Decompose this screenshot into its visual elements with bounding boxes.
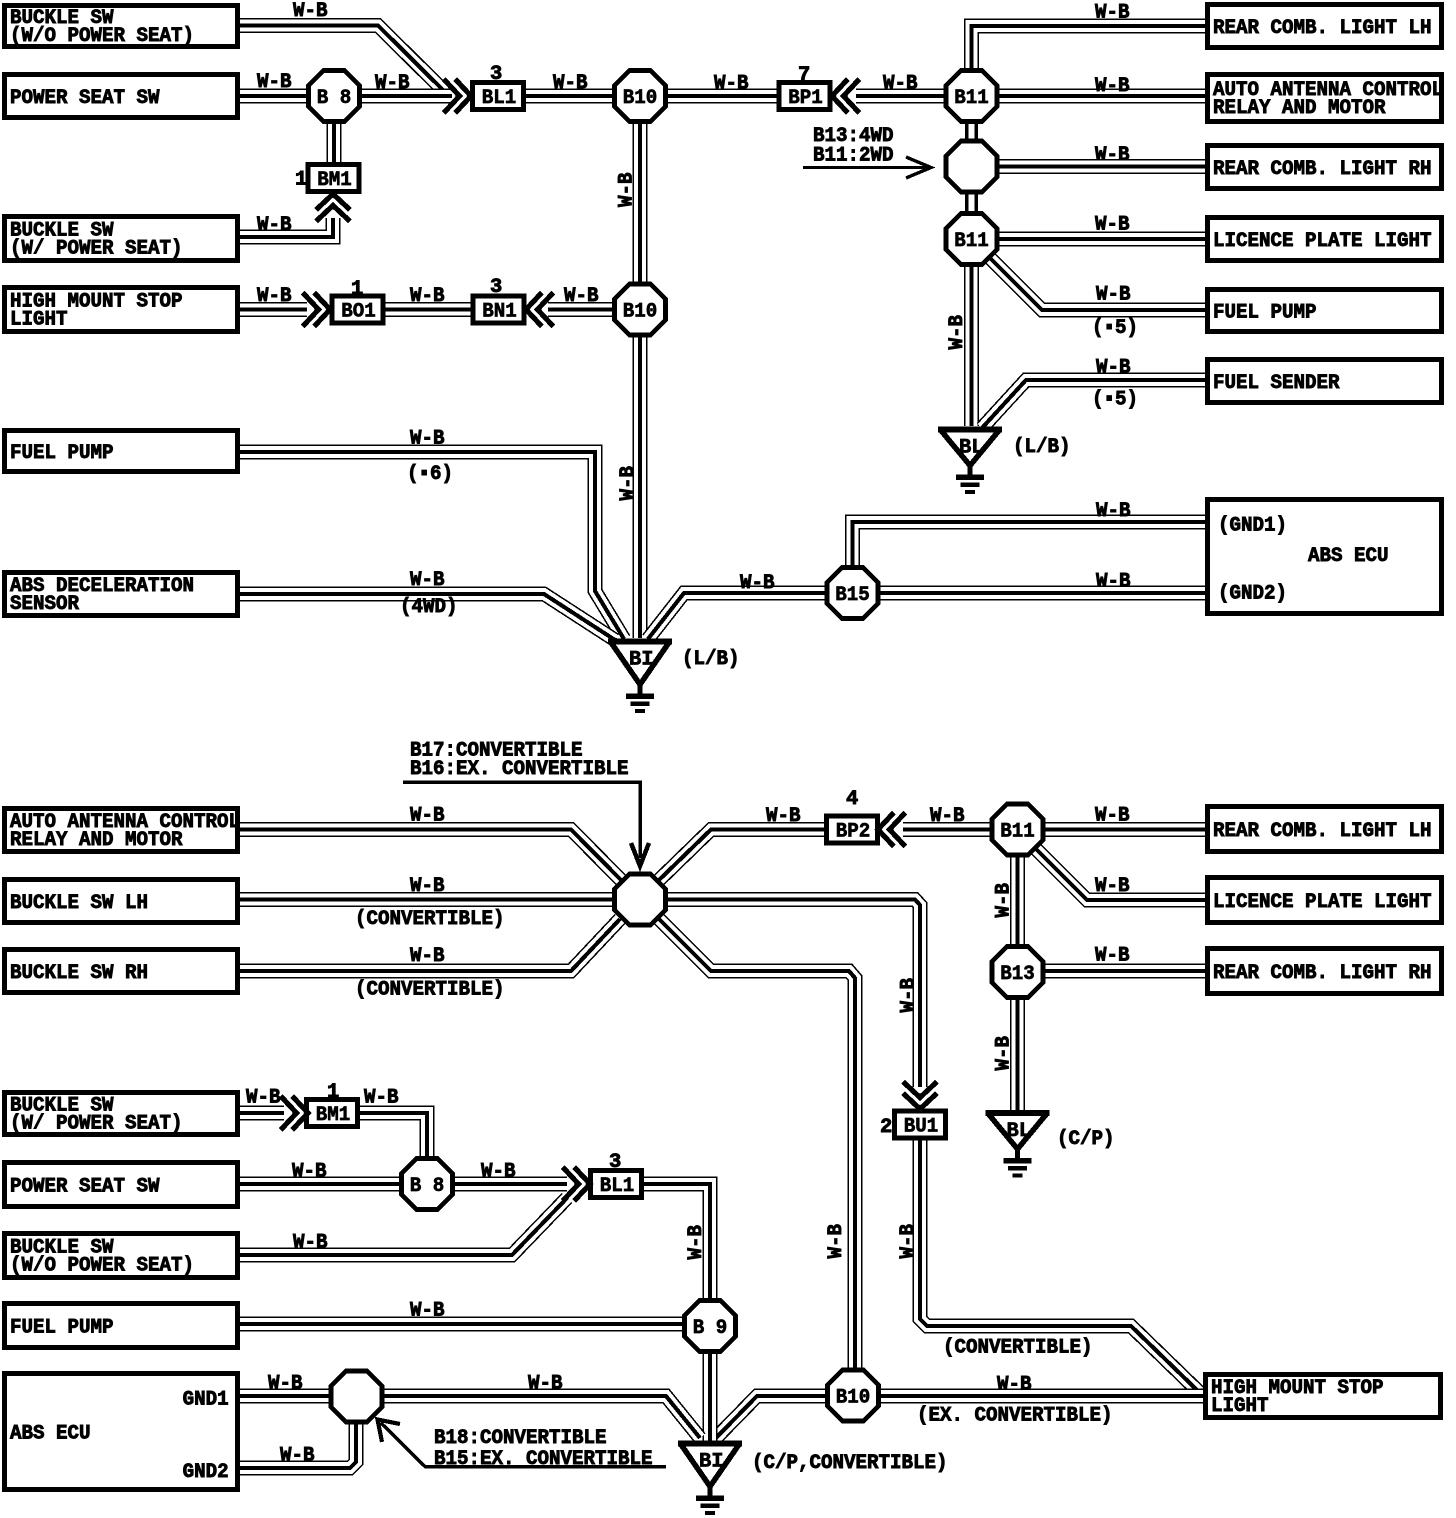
connector BM1 top xyxy=(308,165,359,192)
wire BP2 arrow to B11 xyxy=(903,822,994,837)
svg-text:7: 7 xyxy=(798,64,810,87)
splice arrow into BU1 xyxy=(905,1084,935,1110)
wire BM1 to B8 xyxy=(356,1113,427,1160)
wire BL1 to B10 xyxy=(522,89,616,104)
ground BL (C/P) xyxy=(986,1113,1050,1175)
svg-text:W-B: W-B xyxy=(410,945,445,968)
wire buckle sw (w/ power seat) to BM1 arrow xyxy=(240,218,333,237)
wire BN1 arrow to B10 xyxy=(548,302,616,317)
wire central connector to BP2 xyxy=(658,830,830,882)
svg-text:B15: B15 xyxy=(835,584,870,607)
svg-text:W-B: W-B xyxy=(257,71,292,94)
component box fuel pump left xyxy=(5,431,238,472)
svg-text:4: 4 xyxy=(846,788,858,811)
svg-text:B 8: B 8 xyxy=(410,1175,445,1198)
svg-text:(W/O POWER SEAT): (W/O POWER SEAT) xyxy=(10,25,194,48)
svg-text:(W/ POWER SEAT): (W/ POWER SEAT) xyxy=(10,237,183,260)
svg-text:W-B: W-B xyxy=(897,1224,920,1259)
wire B9 down to ground BI btm xyxy=(703,1350,718,1441)
wire B15 to abs ecu GND2 xyxy=(876,586,1205,601)
svg-text:RELAY AND MOTOR: RELAY AND MOTOR xyxy=(10,829,183,852)
component box fuel pump right xyxy=(1208,290,1442,332)
note B18:CONVERTIBLE / B15:EX. CONVERTIBLE with leader arrow xyxy=(378,1420,667,1472)
svg-text:REAR COMB. LIGHT RH: REAR COMB. LIGHT RH xyxy=(1213,962,1432,985)
svg-text:(GND1): (GND1) xyxy=(1218,515,1287,538)
svg-text:(▪5): (▪5) xyxy=(1092,317,1138,340)
component box fuel pump btm xyxy=(5,1304,238,1348)
connector BM1 bottom xyxy=(307,1100,358,1127)
svg-text:POWER SEAT SW: POWER SEAT SW xyxy=(10,1175,160,1198)
svg-text:W-B: W-B xyxy=(481,1161,516,1184)
component box licence plate light btm xyxy=(1208,878,1442,923)
svg-text:W-B: W-B xyxy=(1095,945,1130,968)
wire B15 to ground BI xyxy=(648,593,829,639)
component box buckle sw w/ power seat btm xyxy=(5,1093,238,1136)
wire fuel pump to B9 xyxy=(240,1317,686,1332)
wire B11 diagonal to fuel pump xyxy=(982,250,1205,310)
svg-text:B11: B11 xyxy=(954,230,989,253)
wire unlabeled connector to B11 (stub) xyxy=(965,188,978,216)
svg-text:(▪5): (▪5) xyxy=(1092,389,1138,412)
connector octagon central unlabeled connector xyxy=(615,874,666,925)
svg-text:BP1: BP1 xyxy=(788,87,823,110)
splice arrow into BP1 xyxy=(832,81,858,111)
svg-text:BN1: BN1 xyxy=(482,300,517,323)
svg-text:W-B: W-B xyxy=(883,73,918,96)
component box abs deceleration sensor xyxy=(5,573,238,616)
wire B8 to BL1 arrow xyxy=(358,89,452,104)
wire B10 to high mount stop light xyxy=(878,1389,1205,1404)
wire fuel pump (#6) to ground BI xyxy=(240,452,624,639)
component box abs ecu top xyxy=(1208,500,1442,614)
svg-text:BI: BI xyxy=(629,649,654,672)
connector BO1 xyxy=(332,296,383,323)
component box buckle sw w/o power seat btm xyxy=(5,1234,238,1278)
note B13:4WD / B11:2WD with arrow xyxy=(803,125,931,178)
svg-text:(EX. CONVERTIBLE): (EX. CONVERTIBLE) xyxy=(917,1405,1113,1428)
wire B11 to licence plate light xyxy=(996,232,1205,247)
svg-text:W-B: W-B xyxy=(280,1445,315,1468)
svg-text:B10: B10 xyxy=(836,1387,871,1410)
svg-text:3: 3 xyxy=(609,1151,621,1174)
svg-text:(CONVERTIBLE): (CONVERTIBLE) xyxy=(355,979,505,1002)
wire B8 to BM1 xyxy=(327,118,342,167)
component box high mount stop light xyxy=(5,288,238,332)
svg-text:W-B: W-B xyxy=(410,875,445,898)
svg-text:W-B: W-B xyxy=(616,173,639,208)
wire connector to ground BI long xyxy=(380,1396,700,1438)
component box abs ecu bottom xyxy=(5,1374,238,1490)
component box buckle sw w/o power seat xyxy=(5,6,238,48)
splice arrow into BL1 top xyxy=(446,81,472,111)
wire buckle sw (w/ power seat) to BM1 arrow btm xyxy=(240,1106,284,1121)
svg-text:W-B: W-B xyxy=(410,569,445,592)
wire buckle sw (w/o power seat) to BL1 arrow xyxy=(240,26,448,96)
component box licence plate light xyxy=(1208,218,1442,261)
connector BU1 xyxy=(895,1111,946,1138)
connector octagon B8 top xyxy=(309,71,360,122)
splice arrow into BM1 bottom xyxy=(283,1098,309,1128)
svg-text:W-B: W-B xyxy=(1096,357,1131,380)
svg-text:REAR COMB. LIGHT RH: REAR COMB. LIGHT RH xyxy=(1213,158,1432,181)
svg-text:ABS ECU: ABS ECU xyxy=(10,1423,91,1446)
connector octagon B13 xyxy=(992,947,1043,998)
connector octagon B10 bottom xyxy=(828,1370,879,1421)
svg-text:W-B: W-B xyxy=(997,1374,1032,1397)
wire unlabeled connector to rear comb light RH xyxy=(996,159,1205,174)
svg-text:LIGHT: LIGHT xyxy=(10,308,68,331)
svg-text:W-B: W-B xyxy=(825,1224,848,1259)
svg-text:LIGHT: LIGHT xyxy=(1211,1395,1269,1418)
svg-text:LICENCE PLATE LIGHT: LICENCE PLATE LIGHT xyxy=(1213,230,1432,253)
svg-text:FUEL PUMP: FUEL PUMP xyxy=(1213,301,1317,324)
svg-text:W-B: W-B xyxy=(293,0,328,23)
svg-text:W-B: W-B xyxy=(1095,875,1130,898)
component box rear comb light RH xyxy=(1208,146,1442,189)
connector octagon unlabeled connector near abs ecu xyxy=(331,1371,382,1422)
wire high mount stop light to BO1 arrow xyxy=(240,302,307,317)
component box buckle sw LH xyxy=(5,880,238,923)
svg-text:W-B: W-B xyxy=(740,572,775,595)
component box power seat sw xyxy=(5,75,238,118)
svg-text:GND2: GND2 xyxy=(183,1461,229,1484)
svg-text:B11: B11 xyxy=(954,87,989,110)
svg-text:W-B: W-B xyxy=(930,805,965,828)
connector octagon B10 top xyxy=(615,71,666,122)
svg-text:W-B: W-B xyxy=(268,1373,303,1396)
ground BI (L/B) xyxy=(608,642,672,711)
svg-text:RELAY AND MOTOR: RELAY AND MOTOR xyxy=(1213,97,1386,120)
wire B11 to rear comb light LH xyxy=(1042,822,1205,837)
svg-text:1: 1 xyxy=(327,1081,339,1104)
note B17:CONVERTIBLE / B16:EX. CONVERTIBLE with leader arrow xyxy=(403,740,649,867)
svg-text:BL1: BL1 xyxy=(482,87,517,110)
svg-text:B 8: B 8 xyxy=(317,87,352,110)
svg-text:B16:EX. CONVERTIBLE: B16:EX. CONVERTIBLE xyxy=(410,758,629,781)
wire abs ecu GND1 to connector xyxy=(240,1389,333,1404)
svg-text:3: 3 xyxy=(490,63,502,86)
svg-text:W-B: W-B xyxy=(1095,805,1130,828)
wire BP1 arrow to B11 xyxy=(856,89,948,104)
svg-text:(L/B): (L/B) xyxy=(682,648,740,671)
svg-text:(4WD): (4WD) xyxy=(400,596,458,619)
component box power seat sw btm xyxy=(5,1163,238,1207)
connector octagon B9 xyxy=(685,1301,736,1352)
svg-text:ABS ECU: ABS ECU xyxy=(1308,545,1389,568)
connector BP2 xyxy=(827,816,878,843)
svg-text:(CONVERTIBLE): (CONVERTIBLE) xyxy=(355,908,505,931)
svg-text:B11:2WD: B11:2WD xyxy=(813,145,894,168)
svg-text:BUCKLE SW LH: BUCKLE SW LH xyxy=(10,892,148,915)
svg-text:W-B: W-B xyxy=(553,72,588,95)
svg-text:REAR COMB. LIGHT LH: REAR COMB. LIGHT LH xyxy=(1213,820,1432,843)
svg-text:BUCKLE SW RH: BUCKLE SW RH xyxy=(10,962,148,985)
svg-text:(W/ POWER SEAT): (W/ POWER SEAT) xyxy=(10,1112,183,1135)
svg-text:(▪6): (▪6) xyxy=(407,463,453,486)
svg-text:W-B: W-B xyxy=(1095,2,1130,25)
splice arrow into BO1 xyxy=(305,295,331,325)
svg-text:W-B: W-B xyxy=(714,73,749,96)
svg-text:W-B: W-B xyxy=(1095,214,1130,237)
svg-text:B10: B10 xyxy=(623,87,658,110)
svg-text:BM1: BM1 xyxy=(316,1104,351,1127)
svg-text:W-B: W-B xyxy=(1096,284,1131,307)
connector octagon unlabeled connector 4WD/2WD xyxy=(946,141,997,192)
component box high mount stop light btm xyxy=(1206,1375,1441,1418)
connector octagon B8 bottom xyxy=(402,1159,453,1210)
svg-text:W-B: W-B xyxy=(246,1087,281,1110)
svg-text:BM1: BM1 xyxy=(317,169,352,192)
wire BL1 to B9 xyxy=(640,1184,710,1302)
svg-text:W-B: W-B xyxy=(617,466,640,501)
svg-text:SENSOR: SENSOR xyxy=(10,593,80,616)
connector BP1 xyxy=(779,83,830,110)
svg-text:W-B: W-B xyxy=(293,1232,328,1255)
wire abs ecu GND2 to connector xyxy=(240,1420,356,1468)
wire central connector to BU1 arrow xyxy=(663,900,920,1088)
svg-text:B11: B11 xyxy=(1000,821,1034,844)
wire B11 to auto antenna control relay and motor xyxy=(996,89,1205,104)
connector BL1 top xyxy=(473,83,524,110)
svg-text:POWER SEAT SW: POWER SEAT SW xyxy=(10,87,160,110)
svg-text:W-B: W-B xyxy=(685,1225,708,1260)
component box auto antenna control relay and motor xyxy=(1208,75,1444,122)
svg-text:BU1: BU1 xyxy=(904,1115,939,1138)
wire B10 vertical to B10 xyxy=(633,118,648,288)
wire abs deceleration sensor to ground BI xyxy=(240,594,615,640)
wire central connector to B10 vertical xyxy=(658,918,855,1370)
component box buckle sw RH xyxy=(5,950,238,993)
svg-text:W-B: W-B xyxy=(364,1087,399,1110)
component box fuel sender xyxy=(1208,360,1442,403)
svg-text:1: 1 xyxy=(295,169,307,192)
component box buckle sw w/ power seat xyxy=(5,217,238,261)
wire buckle sw RH to central connector xyxy=(240,919,620,971)
wire B10 down to ground BI xyxy=(633,332,648,638)
svg-text:W-B: W-B xyxy=(375,72,410,95)
wire B10 to ground BI xyxy=(714,1396,830,1440)
wire BO1 to BN1 xyxy=(380,302,475,317)
wire B15 up to abs ecu GND1 xyxy=(853,522,1206,570)
component box rear comb light LH btm xyxy=(1208,807,1442,852)
component box auto antenna control relay and motor btm xyxy=(5,809,241,852)
connector octagon B10 mid xyxy=(615,284,666,335)
svg-text:W-B: W-B xyxy=(292,1161,327,1184)
svg-text:(C/P,CONVERTIBLE): (C/P,CONVERTIBLE) xyxy=(752,1452,948,1475)
ground BI (C/P,CONVERTIBLE) xyxy=(678,1444,742,1513)
svg-text:BL1: BL1 xyxy=(600,1175,635,1198)
wire B11 to connector below (stub) xyxy=(965,118,978,144)
wire B13 to rear comb light RH xyxy=(1042,964,1205,979)
svg-text:(W/O POWER SEAT): (W/O POWER SEAT) xyxy=(10,1254,194,1277)
svg-text:BL: BL xyxy=(1007,1120,1032,1143)
wire B13 down to ground BL xyxy=(1010,996,1025,1110)
svg-text:W-B: W-B xyxy=(993,883,1016,918)
svg-text:W-B: W-B xyxy=(1096,500,1131,523)
component box rear comb light RH btm xyxy=(1208,949,1442,994)
svg-text:W-B: W-B xyxy=(1095,75,1130,98)
svg-text:W-B: W-B xyxy=(1095,144,1130,167)
svg-text:(CONVERTIBLE): (CONVERTIBLE) xyxy=(943,1337,1093,1360)
svg-text:B13: B13 xyxy=(1000,963,1034,986)
svg-text:(C/P): (C/P) xyxy=(1057,1128,1115,1151)
wire buckle sw LH to central connector xyxy=(240,892,616,907)
svg-text:W-B: W-B xyxy=(410,428,445,451)
wire auto antenna control to central connector xyxy=(240,830,621,881)
splice arrow into BP2 xyxy=(878,815,904,845)
svg-text:B 9: B 9 xyxy=(693,1317,728,1340)
svg-text:BP2: BP2 xyxy=(836,820,871,843)
connector octagon B11 top xyxy=(946,71,997,122)
svg-text:(GND2): (GND2) xyxy=(1218,583,1287,606)
svg-text:FUEL PUMP: FUEL PUMP xyxy=(10,1316,114,1339)
svg-text:3: 3 xyxy=(490,276,502,299)
svg-text:FUEL SENDER: FUEL SENDER xyxy=(1213,372,1340,395)
svg-text:LICENCE PLATE LIGHT: LICENCE PLATE LIGHT xyxy=(1213,891,1432,914)
svg-text:W-B: W-B xyxy=(410,285,445,308)
wire power seat sw to B8 btm xyxy=(240,1177,403,1192)
connector octagon B11 lower xyxy=(946,214,997,265)
svg-text:BI: BI xyxy=(699,1451,724,1474)
svg-text:2: 2 xyxy=(880,1116,892,1139)
svg-text:W-B: W-B xyxy=(564,285,599,308)
svg-text:BO1: BO1 xyxy=(341,300,376,323)
wire power seat sw to B8 xyxy=(240,89,310,104)
svg-text:W-B: W-B xyxy=(1096,571,1131,594)
svg-text:GND1: GND1 xyxy=(183,1389,229,1412)
component box rear comb light LH xyxy=(1208,5,1442,48)
wire B11 down to B13 xyxy=(1010,852,1025,948)
svg-text:W-B: W-B xyxy=(898,978,921,1013)
svg-text:W-B: W-B xyxy=(257,214,292,237)
svg-text:BL: BL xyxy=(959,437,984,460)
splice arrow into BN1 xyxy=(526,295,552,325)
svg-text:REAR COMB. LIGHT LH: REAR COMB. LIGHT LH xyxy=(1213,17,1432,40)
wire B11 diagonal to licence plate light xyxy=(1030,843,1205,900)
svg-text:W-B: W-B xyxy=(410,805,445,828)
wire B11 top to rear comb light LH xyxy=(972,26,1206,74)
connector BN1 xyxy=(473,296,524,323)
splice arrow into BL1 bottom xyxy=(565,1169,591,1199)
wire B10 to BP1 xyxy=(664,89,781,104)
svg-text:B10: B10 xyxy=(623,301,658,324)
wire buckle sw (w/o power seat) to BL1 arrow diagonal xyxy=(240,1198,567,1255)
wire BU1 to high mount stop light (convertible) xyxy=(920,1138,1199,1392)
svg-text:W-B: W-B xyxy=(410,1300,445,1323)
svg-text:W-B: W-B xyxy=(528,1373,563,1396)
connector octagon B11 bottom xyxy=(992,804,1043,855)
svg-text:W-B: W-B xyxy=(946,315,969,350)
splice arrow into BM1 top xyxy=(318,194,348,220)
connector BL1 bottom xyxy=(591,1171,642,1198)
svg-text:W-B: W-B xyxy=(993,1036,1016,1071)
svg-text:FUEL PUMP: FUEL PUMP xyxy=(10,442,114,465)
connector octagon B15 xyxy=(827,568,878,619)
wire B11 down to ground BL xyxy=(964,262,979,426)
wire B8 to BL1 arrow btm xyxy=(451,1177,567,1192)
svg-text:W-B: W-B xyxy=(257,285,292,308)
svg-text:W-B: W-B xyxy=(766,805,801,828)
svg-text:B18:CONVERTIBLE: B18:CONVERTIBLE xyxy=(434,1427,607,1450)
wire fuel sender diagonal to ground BL xyxy=(982,380,1205,428)
ground BL (L/B) xyxy=(938,430,1002,492)
svg-text:1: 1 xyxy=(351,278,363,301)
svg-text:(L/B): (L/B) xyxy=(1013,436,1071,459)
